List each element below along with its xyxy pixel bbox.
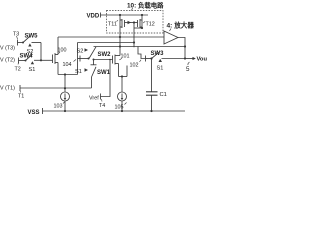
label SW5 [25, 34, 39, 40]
node dot T12 drain [141, 27, 143, 29]
pointer from label 4 [170, 29, 172, 32]
terminal T4 bar [100, 94, 102, 100]
input V(T3) [0, 46, 15, 52]
label T11 [108, 22, 117, 28]
svg-text:T11: T11 [108, 22, 117, 28]
node dot gate tie [133, 21, 135, 23]
svg-text:S1: S1 [157, 66, 164, 72]
transistor 101 (NMOS) [112, 56, 114, 64]
node dot SW3 pivot / C1 [150, 57, 152, 59]
svg-text:T4: T4 [99, 103, 105, 109]
wire SW5 down to gate node [40, 43, 42, 61]
current source 103 [121, 77, 123, 93]
wire to Vout with arrow [185, 58, 193, 60]
svg-text:5: 5 [186, 66, 190, 73]
label 102 [54, 104, 63, 110]
wire V(T1) line [20, 87, 92, 89]
svg-text:S2: S2 [77, 49, 84, 55]
svg-text:SW2: SW2 [98, 52, 112, 58]
node dot feedback/output [184, 45, 186, 47]
node dot tail right [121, 75, 123, 77]
svg-text:100: 100 [58, 48, 67, 54]
switch SW1 (vertical) [93, 60, 95, 65]
svg-text:SW1: SW1 [97, 70, 111, 76]
svg-text:T2: T2 [15, 67, 21, 73]
label S1 of SW3 [157, 66, 164, 72]
label load circuit 10 [127, 1, 164, 10]
input V(T2) [0, 58, 15, 64]
wire gate tie of T11/T12 down [133, 23, 135, 48]
wire drain line left NMOS 100 [57, 37, 59, 55]
label T4 [99, 103, 105, 109]
VDD label [87, 14, 100, 20]
wire VDD rail [101, 14, 149, 16]
svg-text:SW3: SW3 [151, 51, 165, 57]
wire Vref to gate line [101, 60, 111, 97]
pointer arrow S2 [85, 48, 89, 51]
label node 5 [188, 62, 190, 65]
label 103 [115, 105, 124, 111]
svg-text:SW5: SW5 [25, 34, 39, 40]
label S1 of SW1 [75, 69, 82, 75]
op-amp 4 triangle [164, 31, 178, 44]
svg-text:105: 105 [115, 105, 124, 111]
svg-text:V (T3): V (T3) [0, 46, 15, 52]
label S1 of SW4 [29, 67, 36, 73]
svg-text:T12: T12 [146, 22, 155, 28]
wire SW5 to load gates line [78, 42, 135, 44]
switch SW2 arm [89, 47, 96, 59]
transistor T11 (PMOS) [119, 15, 121, 56]
VSS terminal bar [42, 108, 44, 114]
wire tail left [58, 74, 78, 76]
switch SW3 arm [152, 52, 160, 58]
node dot VSS-102 [64, 110, 66, 112]
svg-text:VDD: VDD [87, 14, 100, 20]
switch SW2 contact bar [79, 56, 81, 62]
wire tail right [119, 76, 128, 78]
label S2 of SW2 [77, 49, 84, 55]
svg-text:V (T2): V (T2) [0, 58, 15, 64]
current source 102 [64, 75, 66, 93]
label 100 [58, 48, 67, 54]
label node 104 [63, 62, 72, 68]
label SW2 [98, 52, 112, 58]
node dot SW4/SW5 join [40, 59, 42, 61]
wire SW3 right to output [162, 58, 186, 60]
svg-text:SW4: SW4 [20, 54, 34, 60]
svg-text:102: 102 [130, 63, 139, 69]
node dot VSS-C1 [150, 110, 152, 112]
label SW3 [151, 51, 165, 57]
svg-text:Vout: Vout [197, 57, 208, 63]
label SW1 [97, 70, 111, 76]
label 101 [121, 54, 130, 60]
label T1 [18, 94, 24, 100]
wire feedback line [94, 46, 186, 48]
svg-text:103: 103 [54, 104, 63, 110]
node dot SW1 top [93, 59, 95, 61]
wire SW3 left [146, 58, 152, 60]
switch SW5 [18, 42, 24, 44]
terminal T2 bar [18, 58, 20, 64]
label T2 [15, 67, 21, 73]
node dot input line / T11 drain [119, 36, 121, 38]
pointer from label 10 to box [132, 8, 133, 11]
Vref input [89, 96, 99, 102]
wire gate tie to T12 drain [134, 27, 142, 29]
transistor 100 (NMOS) [52, 55, 54, 64]
VSS label [28, 110, 40, 116]
node dot gate line end [133, 41, 135, 43]
label T12 [146, 22, 155, 28]
wire SW2 left [80, 58, 89, 60]
node dot Vref branch [109, 59, 111, 61]
load circuit dashed box 10 [107, 11, 164, 34]
wire SW2 left vertical [77, 43, 79, 75]
switch SW3 contact bar [145, 56, 147, 62]
svg-text:104: 104 [63, 62, 72, 68]
node dot SW2 pivot [88, 58, 90, 60]
pointer arrow S1 of SW4 [31, 61, 34, 64]
pointer arrow S1 of SW3 [159, 59, 163, 62]
label T3 [13, 32, 19, 38]
terminal T3 bar [17, 40, 19, 46]
label SW4 [20, 54, 34, 60]
svg-text:VSS: VSS [28, 110, 40, 116]
node dot T1 line / tail branch [64, 87, 66, 89]
VDD terminal bar [100, 13, 102, 18]
transistor T12 (PMOS) [141, 15, 143, 28]
input V(T1) [0, 86, 15, 92]
switch SW4 [19, 60, 26, 62]
svg-text:V (T1): V (T1) [0, 86, 15, 92]
svg-text:T1: T1 [18, 94, 24, 100]
node dot tail left [64, 73, 66, 75]
label amplifier 4 [167, 21, 195, 30]
label C1 [160, 92, 167, 98]
capacitor C1 [151, 59, 153, 92]
svg-text:S1: S1 [29, 67, 36, 73]
svg-text:S1: S1 [75, 69, 82, 75]
wire amp input line [58, 36, 164, 38]
terminal T1 bar [19, 85, 21, 91]
svg-text:4: 放大器: 4: 放大器 [167, 21, 195, 30]
svg-text:Vref: Vref [89, 96, 99, 102]
svg-text:T3: T3 [13, 32, 19, 38]
wire branch to SW3 [138, 47, 145, 59]
node dot feedback/drain [119, 45, 121, 47]
node dot VDD-T11 [119, 14, 121, 16]
label Vout [197, 57, 210, 63]
pointer arrow S2 of SW5 [28, 43, 31, 46]
node dot VSS-103 [121, 110, 123, 112]
wire to gate of 100 [41, 59, 53, 61]
wire VSS rail [43, 110, 186, 112]
pointer arrow S1 [85, 68, 89, 71]
label node 102 [130, 63, 139, 69]
svg-text:C1: C1 [160, 92, 167, 98]
wire gate line of 101 [94, 59, 113, 61]
node dot output junction [184, 57, 186, 59]
wire amp output [178, 38, 185, 59]
label S2 of SW5 [27, 49, 34, 55]
node dot VDD-T12 [141, 14, 143, 16]
